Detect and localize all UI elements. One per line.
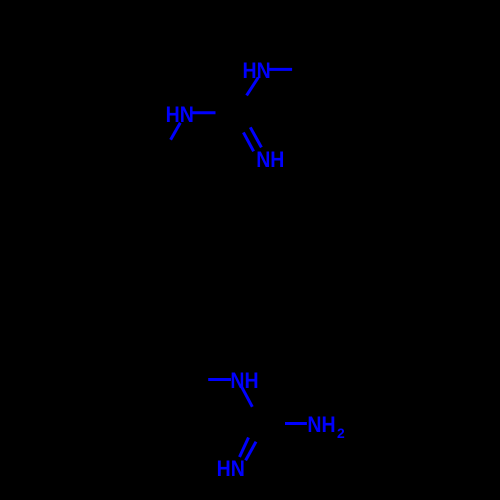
svg-text:HN: HN [217,456,245,481]
bond N4 to central C2 (down-right) [242,387,253,407]
svg-text:2: 2 [337,425,345,441]
double bond C2=N6 line b [246,442,256,461]
bond chain C to N4 (horizontal) [208,378,231,381]
double bond C=N3 line a [243,132,253,151]
bond N1 to methyl (horizontal) [269,68,292,71]
bond N2 to central C (horizontal) [192,111,215,114]
svg-text:NH: NH [256,147,284,172]
bond N2 to chain C (down-left) [171,123,181,140]
double bond C=N3 line b [250,127,261,147]
bond central C2 to N5 (horizontal) [285,422,307,425]
bond N1 to central C (down-left) [247,78,259,96]
svg-text:NH: NH [307,412,335,437]
double bond C2=N6 line a [240,438,249,458]
